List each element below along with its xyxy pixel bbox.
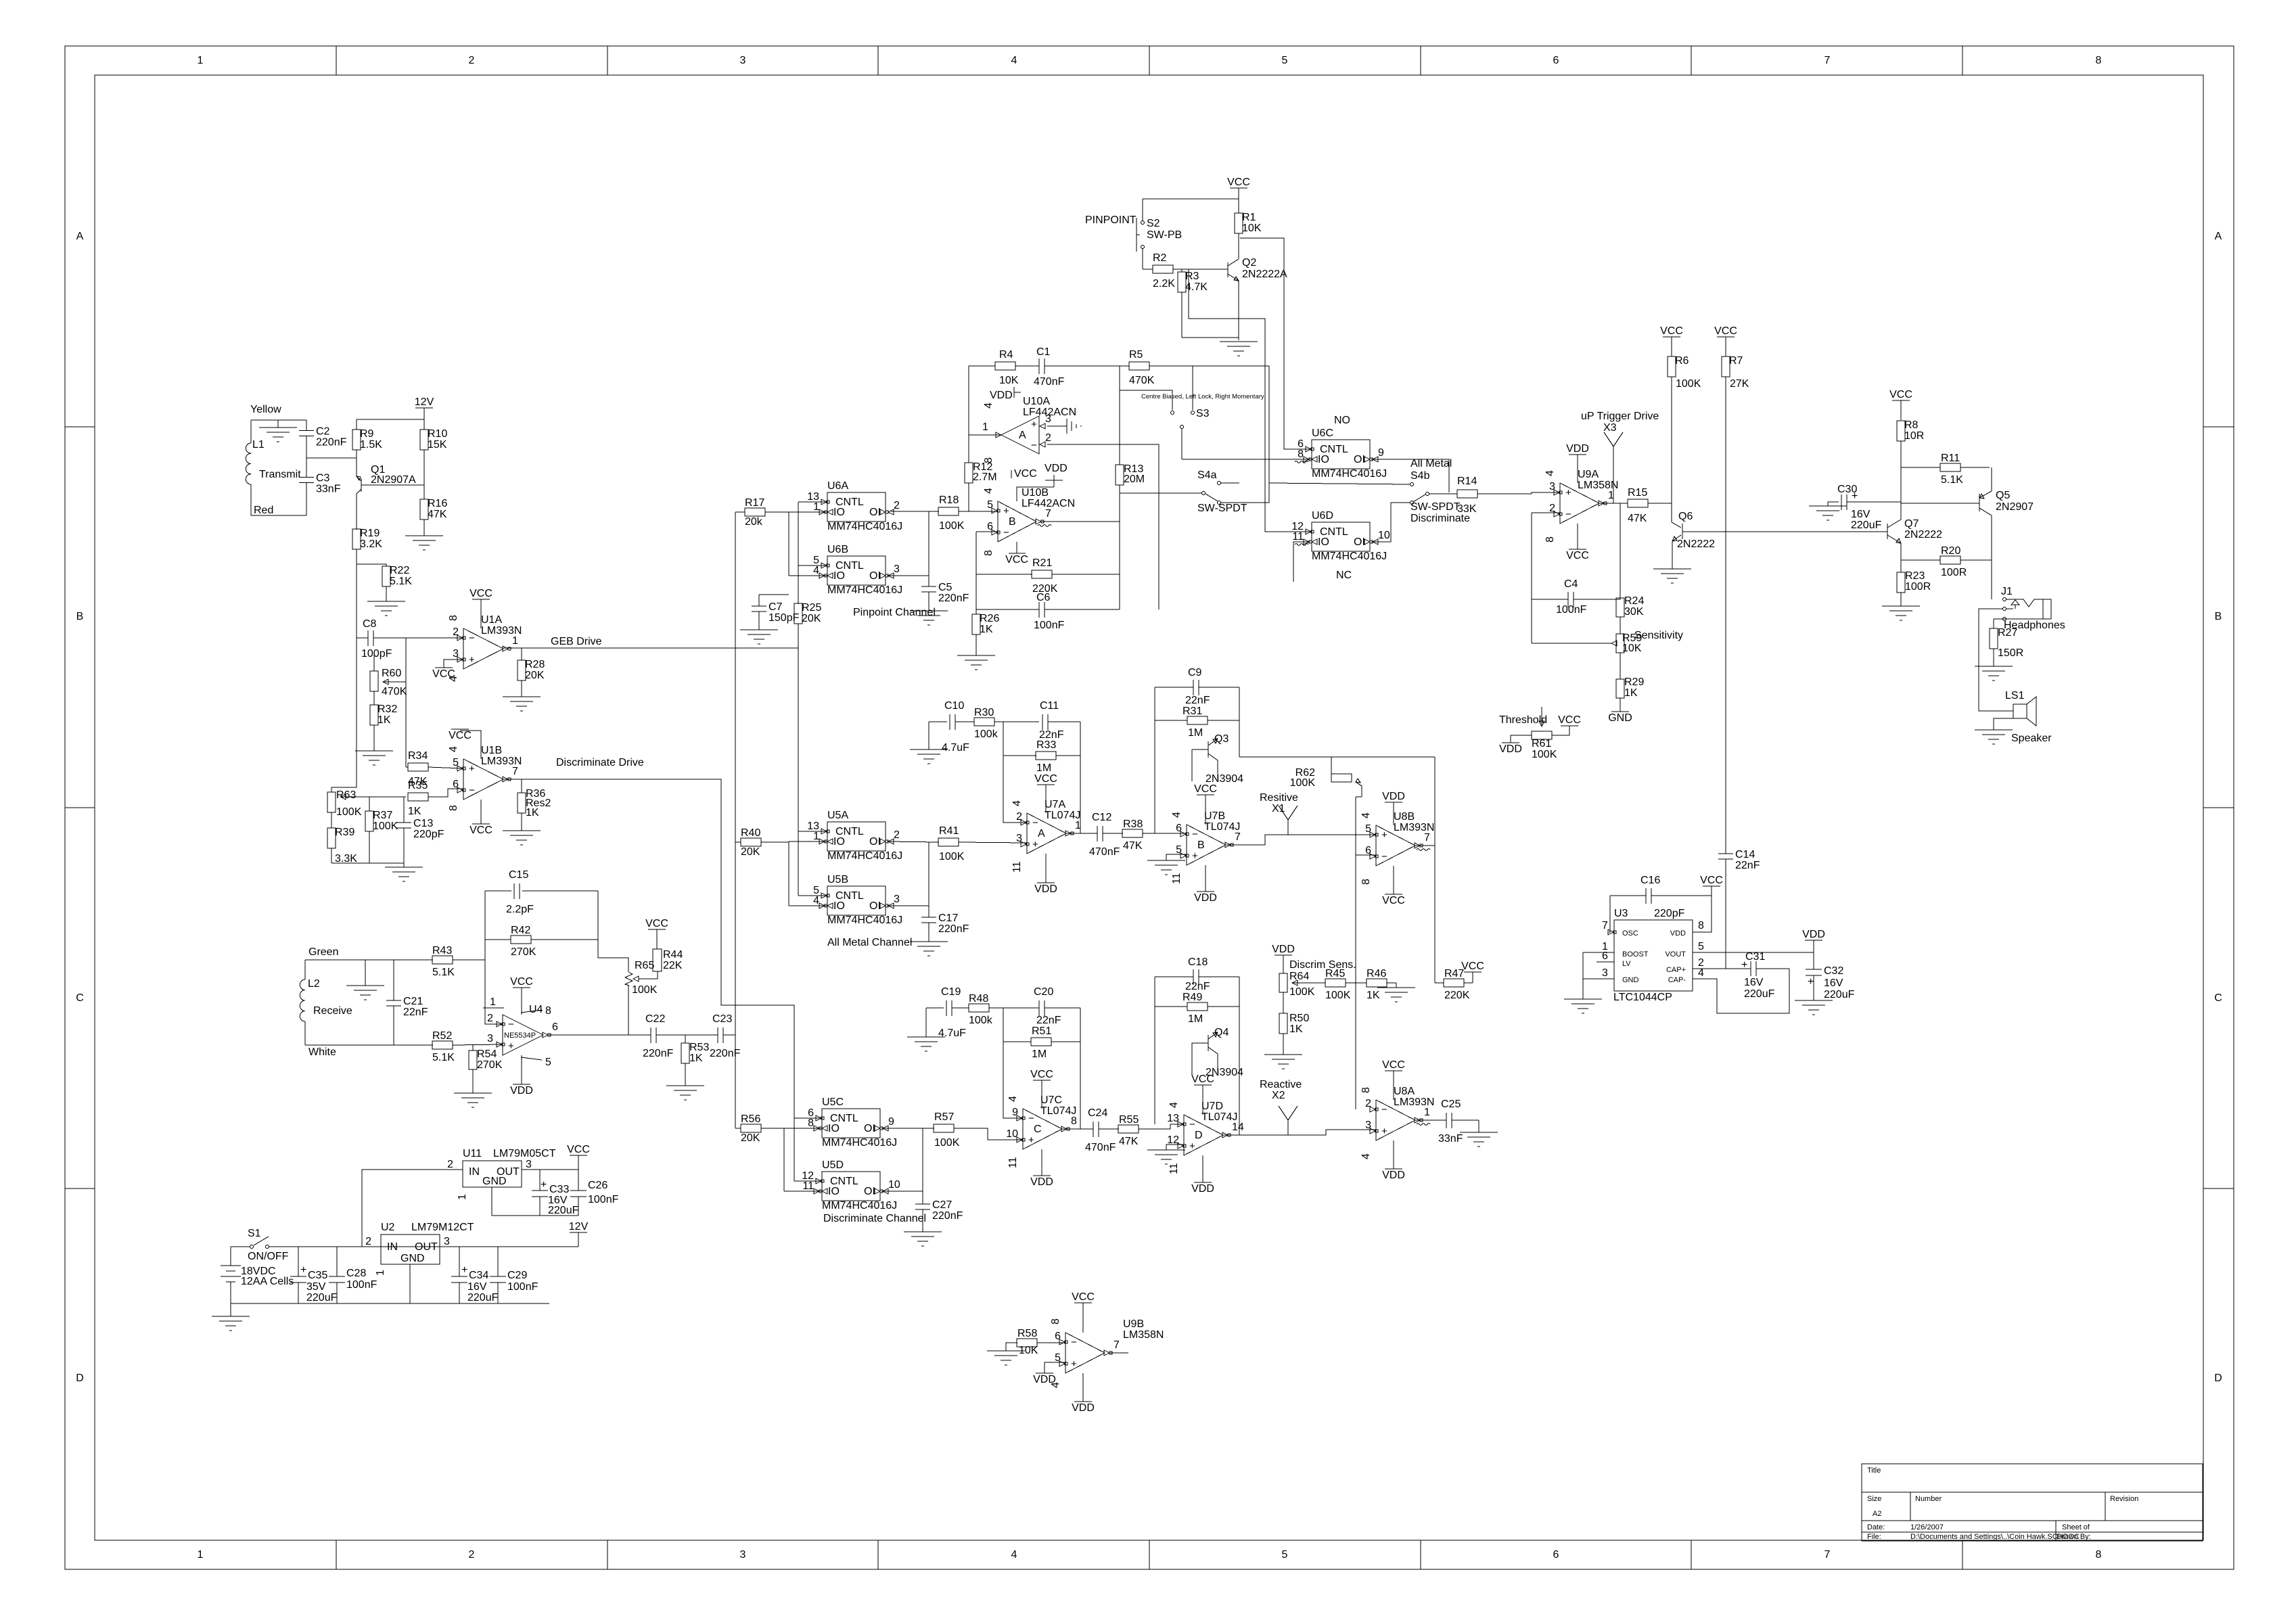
svg-text:U2: U2 [381, 1222, 395, 1233]
ground under R54 [454, 1093, 492, 1107]
antenna X1 Resitive [1260, 792, 1298, 835]
svg-text:1: 1 [375, 1270, 386, 1276]
svg-text:8: 8 [1050, 1318, 1061, 1324]
svg-text:C12: C12 [1092, 812, 1111, 823]
wire Discriminate Drive [503, 779, 794, 1181]
svg-text:LM358N: LM358N [1578, 480, 1618, 491]
svg-text:8: 8 [1544, 536, 1556, 542]
wire U6C OI to S4b [1371, 459, 1449, 492]
svg-text:R55: R55 [1119, 1114, 1139, 1126]
svg-text:R1: R1 [1242, 212, 1256, 223]
svg-text:U5B: U5B [827, 874, 848, 885]
svg-text:CAP+: CAP+ [1666, 966, 1686, 974]
svg-text:+: + [1031, 419, 1037, 430]
resistor R14 [1457, 476, 1560, 515]
capacitor C16 [1610, 875, 1712, 919]
power VCC below U1B [469, 800, 492, 836]
svg-text:GND: GND [1622, 976, 1639, 984]
ground under R36 [503, 831, 541, 845]
resistor R30 [974, 707, 1039, 740]
svg-text:20K: 20K [741, 1132, 760, 1144]
svg-text:C18: C18 [1188, 956, 1208, 968]
svg-text:3: 3 [894, 563, 900, 575]
svg-text:3.2K: 3.2K [360, 538, 382, 550]
wire Q3 rail to U8B output column [1239, 756, 1435, 758]
svg-text:2: 2 [447, 1159, 453, 1170]
zone row letters [76, 231, 2222, 1384]
svg-text:5: 5 [1698, 941, 1704, 952]
Q3 block rails [1155, 687, 1239, 833]
ground under R23 [1882, 606, 1920, 620]
wire GEB Drive [503, 647, 798, 649]
resistor R38 [1122, 818, 1187, 852]
svg-text:C1: C1 [1036, 346, 1051, 358]
svg-text:VDD: VDD [1566, 443, 1589, 455]
svg-text:3: 3 [526, 1159, 532, 1170]
wire IO column U5CD [784, 1128, 822, 1191]
svg-text:Size: Size [1867, 1495, 1881, 1503]
svg-text:D: D [1195, 1130, 1203, 1141]
svg-text:U11: U11 [463, 1148, 482, 1159]
svg-text:Threshold: Threshold [1499, 714, 1547, 726]
power VCC at U1A pin3 [432, 660, 463, 680]
resistor R6 [1668, 355, 1701, 503]
analog switch U5D [802, 1159, 900, 1211]
svg-text:R19: R19 [360, 528, 380, 539]
svg-text:VCC: VCC [1700, 875, 1723, 886]
svg-text:220pF: 220pF [1654, 908, 1685, 919]
resistor R40 [735, 827, 789, 858]
svg-text:270K: 270K [511, 946, 536, 958]
svg-text:R61: R61 [1532, 738, 1551, 749]
svg-text:VDD: VDD [1499, 743, 1522, 755]
svg-text:D: D [2214, 1372, 2222, 1384]
svg-text:1K: 1K [1624, 687, 1638, 699]
svg-text:+: + [461, 1264, 467, 1276]
svg-text:5: 5 [1055, 1352, 1061, 1364]
antenna X3 [1603, 422, 1623, 503]
svg-text:2.7M: 2.7M [973, 471, 997, 483]
svg-text:R37: R37 [373, 810, 392, 821]
svg-text:R10: R10 [428, 428, 447, 440]
svg-text:C33: C33 [549, 1184, 569, 1195]
svg-text:U7B: U7B [1204, 810, 1225, 822]
capacitor C33 [532, 1170, 579, 1216]
capacitor C35 [290, 1247, 338, 1303]
svg-text:OI: OI [864, 1186, 875, 1197]
svg-text:4: 4 [1168, 1102, 1180, 1108]
svg-text:C17: C17 [938, 913, 958, 924]
resistor R52 [394, 1030, 503, 1063]
svg-text:5: 5 [453, 757, 459, 768]
ground at U7D pin12 [1147, 1145, 1185, 1164]
svg-text:220uF: 220uF [306, 1292, 338, 1303]
svg-text:MM74HC4016J: MM74HC4016J [1312, 551, 1387, 562]
wire U6D IO stub [1293, 542, 1310, 582]
resistor R16 [420, 485, 447, 536]
potentiometer R60 [370, 655, 407, 705]
svg-text:7: 7 [512, 766, 518, 777]
svg-text:C13: C13 [413, 818, 433, 829]
svg-text:5: 5 [545, 1057, 551, 1068]
svg-text:100nF: 100nF [588, 1194, 619, 1205]
capacitor C34 [451, 1247, 499, 1303]
wire R19 to R22 [357, 564, 386, 566]
resistor R53 [681, 1035, 709, 1086]
wire U11 ground rail [492, 1215, 578, 1216]
svg-text:100K: 100K [939, 520, 965, 532]
wire U7B output to U8B pin5 [1226, 835, 1376, 845]
svg-text:220nF: 220nF [316, 437, 347, 448]
svg-text:10: 10 [1006, 1128, 1018, 1140]
svg-text:C15: C15 [509, 869, 528, 881]
svg-text:220uF: 220uF [467, 1292, 499, 1303]
svg-text:VDD: VDD [1044, 463, 1067, 474]
svg-text:2: 2 [894, 500, 900, 511]
svg-text:VCC: VCC [1566, 550, 1589, 561]
svg-text:C: C [76, 992, 84, 1004]
resistor R47 [1435, 968, 1473, 1001]
svg-text:1K: 1K [408, 806, 421, 817]
resistor R4 [969, 349, 1039, 386]
wire J1 ring to speaker [1979, 609, 2013, 711]
power VCC at R61 [1552, 714, 1581, 735]
svg-text:LTC1044CP: LTC1044CP [1613, 992, 1672, 1003]
svg-text:9: 9 [1378, 447, 1384, 459]
svg-text:SW-SPDT: SW-SPDT [1410, 501, 1461, 513]
svg-text:−: − [1032, 817, 1038, 829]
svg-text:U7D: U7D [1201, 1101, 1223, 1112]
svg-text:+: + [469, 763, 475, 775]
svg-text:10K: 10K [999, 375, 1019, 386]
wire Q2 base node to U6D CNTL [1189, 269, 1312, 532]
svg-text:20k: 20k [745, 516, 763, 528]
svg-text:8: 8 [983, 550, 994, 556]
capacitor C19 [938, 986, 969, 1039]
svg-text:Revision: Revision [2110, 1495, 2138, 1503]
svg-text:2: 2 [453, 626, 459, 638]
wire C31 loop to CAP- [1693, 969, 1789, 1013]
svg-text:3: 3 [1549, 481, 1555, 492]
svg-text:R53: R53 [689, 1042, 709, 1053]
ground at LS1 [1975, 718, 2013, 744]
svg-text:33nF: 33nF [1438, 1133, 1463, 1145]
power VDD above R64 [1272, 944, 1295, 973]
svg-text:−: − [469, 632, 475, 644]
svg-text:U8B: U8B [1394, 811, 1415, 823]
svg-text:16V: 16V [1824, 977, 1843, 989]
svg-text:Discrim Sens.: Discrim Sens. [1289, 959, 1356, 971]
svg-text:C10: C10 [944, 700, 964, 712]
resistor R42 [485, 925, 598, 958]
svg-text:3: 3 [1016, 833, 1022, 844]
op-amp U1B LM393N [453, 745, 522, 800]
svg-text:2.2pF: 2.2pF [506, 904, 534, 915]
wire CNTL column U6 [798, 502, 827, 604]
svg-text:2N2907: 2N2907 [1996, 501, 2034, 513]
svg-text:VCC: VCC [1382, 895, 1405, 906]
capacitor C12 [1066, 812, 1123, 858]
svg-text:R64: R64 [1289, 971, 1309, 982]
power VCC above U7B [1194, 783, 1217, 825]
svg-text:IO: IO [833, 900, 845, 912]
svg-text:C19: C19 [941, 986, 961, 998]
coil L2 Receive loop [300, 960, 394, 1058]
svg-text:B: B [76, 611, 84, 622]
svg-text:VCC: VCC [432, 668, 455, 680]
svg-text:U5D: U5D [822, 1159, 844, 1171]
svg-text:3: 3 [1365, 1119, 1371, 1131]
svg-text:R17: R17 [745, 497, 764, 509]
svg-text:SW-PB: SW-PB [1147, 229, 1182, 241]
svg-text:U5A: U5A [827, 810, 848, 821]
svg-text:150R: 150R [1998, 647, 2023, 659]
svg-text:100nF: 100nF [1034, 620, 1065, 631]
resistor R33 [1003, 739, 1080, 774]
capacitor C32 [1806, 952, 1855, 1000]
svg-text:150pF: 150pF [768, 612, 800, 624]
svg-text:2N2222: 2N2222 [1904, 529, 1942, 540]
svg-text:Number: Number [1915, 1495, 1942, 1503]
svg-text:C22: C22 [645, 1013, 665, 1025]
resistor R43 [394, 945, 503, 1024]
svg-text:C25: C25 [1441, 1099, 1461, 1110]
svg-text:+: + [1741, 959, 1747, 971]
wire U11 OUT to VCC [522, 1169, 578, 1170]
ground at C10 input [910, 722, 948, 764]
svg-text:R43: R43 [432, 945, 452, 956]
svg-text:TL074J: TL074J [1204, 821, 1240, 833]
svg-text:VDD: VDD [510, 1085, 533, 1096]
svg-text:OSC: OSC [1622, 929, 1638, 938]
svg-text:8: 8 [1360, 1087, 1372, 1093]
svg-text:10: 10 [1378, 530, 1390, 541]
svg-text:220nF: 220nF [932, 1210, 963, 1222]
svg-text:22nF: 22nF [403, 1007, 428, 1018]
svg-text:Red: Red [254, 505, 273, 516]
wire C2/C3 tap to R9 column [306, 457, 357, 459]
svg-text:R26: R26 [980, 613, 999, 624]
resistor R31 [1155, 706, 1239, 739]
svg-text:NO: NO [1334, 415, 1350, 426]
svg-text:220uF: 220uF [1851, 520, 1882, 531]
svg-text:VCC: VCC [645, 918, 668, 929]
svg-text:−: − [469, 785, 475, 796]
svg-text:4: 4 [1007, 1096, 1019, 1102]
svg-text:R4: R4 [999, 349, 1013, 361]
svg-text:10R: 10R [1904, 430, 1924, 442]
svg-text:100K: 100K [632, 984, 658, 996]
svg-text:11: 11 [1168, 1163, 1180, 1174]
svg-text:SW-SPDT: SW-SPDT [1197, 503, 1247, 514]
resistor R55 [1118, 1114, 1184, 1147]
svg-text:C35: C35 [308, 1270, 327, 1281]
svg-text:4: 4 [983, 488, 994, 494]
svg-text:IO: IO [1318, 536, 1329, 548]
svg-text:X2: X2 [1272, 1090, 1285, 1101]
capacitor C17 [921, 906, 969, 942]
svg-text:1: 1 [198, 55, 204, 66]
wire VCC to S2 and R1 [1143, 199, 1239, 221]
svg-text:4: 4 [448, 746, 459, 752]
zone row ticks [65, 427, 2234, 1188]
resistor R3 [1178, 269, 1208, 338]
capacitor C8 [361, 618, 392, 660]
capacitor C14 [1718, 849, 1760, 969]
svg-text:Pinpoint Channel: Pinpoint Channel [853, 607, 936, 618]
svg-text:R56: R56 [741, 1113, 760, 1125]
svg-text:C28: C28 [346, 1268, 366, 1279]
svg-text:100K: 100K [1290, 777, 1316, 789]
transistor Q6 [1672, 503, 1887, 569]
power VCC below U9A [1566, 524, 1589, 561]
wire IO column U6 [789, 512, 827, 576]
resistor R5 [1129, 349, 1269, 386]
svg-text:A: A [1038, 828, 1045, 839]
svg-text:R49: R49 [1183, 992, 1202, 1003]
svg-text:11: 11 [1011, 861, 1023, 873]
svg-text:100pF: 100pF [361, 648, 392, 660]
svg-text:6: 6 [1176, 823, 1182, 834]
analog switch U6A [807, 480, 902, 532]
svg-text:OUT: OUT [415, 1241, 438, 1253]
resistor R20 [1901, 545, 1992, 578]
svg-text:8: 8 [2096, 1549, 2102, 1561]
IC U3 LTC1044CP [1602, 908, 1704, 1003]
svg-text:R5: R5 [1129, 349, 1143, 361]
wire oscillator node down to C8 and R63 [331, 564, 357, 792]
svg-text:D: D [76, 1372, 84, 1384]
op-amp U8A LM393N [1365, 1086, 1434, 1140]
resistor R49 [1155, 992, 1239, 1025]
svg-text:VCC: VCC [567, 1144, 590, 1155]
power VCC above R8 [1889, 389, 1912, 420]
svg-text:R41: R41 [939, 825, 959, 837]
squiggle U6D IO [1295, 544, 1308, 546]
wire U10B output to R13 column [1042, 521, 1120, 522]
resistor R51 [1003, 1025, 1080, 1060]
svg-text:4: 4 [1360, 812, 1372, 818]
svg-text:VCC: VCC [1005, 554, 1028, 565]
svg-text:2.2K: 2.2K [1153, 278, 1175, 290]
wire U3 pin8 VDD to VCC [1693, 896, 1712, 932]
wire U10A output to feedback [969, 366, 1001, 435]
svg-text:1K: 1K [377, 714, 391, 726]
svg-text:4: 4 [983, 402, 994, 409]
svg-text:B: B [1009, 516, 1016, 528]
svg-text:6: 6 [1553, 55, 1559, 66]
rotated ground at U10A pin3 [1047, 419, 1081, 434]
svg-text:3: 3 [894, 894, 900, 905]
svg-text:Speaker: Speaker [2011, 733, 2052, 744]
svg-text:VCC: VCC [1660, 325, 1683, 337]
capacitor C7 [752, 595, 800, 630]
speaker LS1 [2005, 690, 2052, 744]
svg-text:C9: C9 [1188, 667, 1202, 678]
svg-text:VDD: VDD [1670, 929, 1686, 938]
svg-text:4: 4 [1171, 812, 1183, 818]
svg-text:22nF: 22nF [1185, 981, 1210, 992]
svg-text:14: 14 [1232, 1122, 1244, 1133]
svg-text:5: 5 [987, 499, 993, 511]
capacitor C22 [643, 1013, 718, 1059]
svg-text:Centre Biased, Left Lock, R: Centre Biased, Left Lock, Right Momentar… [1141, 393, 1264, 400]
svg-text:U10B: U10B [1021, 487, 1049, 499]
wire U4 output row [549, 1034, 651, 1036]
svg-text:7: 7 [1113, 1339, 1120, 1351]
svg-text:R15: R15 [1628, 487, 1647, 499]
power VCC above U8A [1382, 1059, 1405, 1100]
svg-text:VDD: VDD [990, 390, 1013, 401]
svg-text:OI: OI [864, 1123, 875, 1134]
wire U9A output [1599, 503, 1628, 504]
svg-text:1M: 1M [1032, 1048, 1047, 1060]
svg-text:2N2222A: 2N2222A [1242, 269, 1287, 280]
svg-text:R3: R3 [1185, 271, 1199, 282]
power VCC above U9B [1072, 1291, 1095, 1333]
transistor Q7 [1887, 442, 1942, 572]
resistor R34 [406, 750, 463, 787]
resistor R11 [1901, 453, 1990, 486]
svg-text:10K: 10K [1622, 643, 1642, 654]
ground under C7 [740, 630, 778, 644]
svg-text:30K: 30K [1624, 606, 1644, 618]
resistor R54 [469, 1044, 503, 1093]
resistor R22 [382, 565, 412, 601]
ground at C19 input [907, 1008, 945, 1051]
svg-text:R63: R63 [336, 789, 356, 801]
power VCC above R44 [645, 918, 668, 949]
svg-text:VDD: VDD [1030, 1176, 1053, 1188]
svg-text:R65: R65 [635, 960, 654, 971]
svg-text:10: 10 [888, 1179, 900, 1191]
svg-text:LF442ACN: LF442ACN [1023, 407, 1076, 418]
svg-text:4: 4 [813, 895, 819, 906]
svg-text:C21: C21 [403, 996, 423, 1007]
svg-text:100nF: 100nF [1556, 604, 1587, 616]
svg-text:220nF: 220nF [938, 593, 969, 604]
switch block top wire [1268, 366, 1270, 483]
svg-text:NC: NC [1336, 570, 1352, 581]
svg-text:Sheet of: Sheet of [2062, 1523, 2090, 1531]
svg-text:7: 7 [1824, 1549, 1831, 1561]
svg-text:2: 2 [487, 1013, 493, 1024]
wire Q2 collector to U6C CNTL [1240, 238, 1312, 449]
wire R13 node to S4a common [1120, 492, 1201, 494]
svg-text:VCC: VCC [1382, 1059, 1405, 1071]
zone column numbers [198, 55, 2102, 1561]
svg-text:−: − [1189, 1119, 1195, 1130]
svg-text:OI: OI [869, 836, 881, 848]
resistor R18 [891, 494, 998, 532]
svg-text:1K: 1K [1289, 1023, 1303, 1035]
svg-text:+: + [1032, 839, 1038, 850]
antenna X2 Reactive [1260, 1079, 1302, 1135]
svg-text:LM393N: LM393N [481, 756, 522, 767]
svg-text:LM79M05CT: LM79M05CT [493, 1148, 556, 1159]
svg-text:3: 3 [444, 1236, 450, 1247]
wire J1 sleeve to R27 [1993, 619, 1994, 628]
svg-text:U7A: U7A [1044, 799, 1065, 810]
svg-text:VDD: VDD [1034, 883, 1057, 895]
svg-text:100K: 100K [1676, 378, 1701, 390]
svg-text:TL074J: TL074J [1201, 1111, 1237, 1123]
ground under Q6 [1653, 569, 1691, 583]
svg-text:5.1K: 5.1K [390, 576, 412, 587]
svg-text:R58: R58 [1017, 1328, 1037, 1339]
svg-text:R24: R24 [1624, 595, 1644, 607]
svg-text:R8: R8 [1904, 419, 1919, 431]
